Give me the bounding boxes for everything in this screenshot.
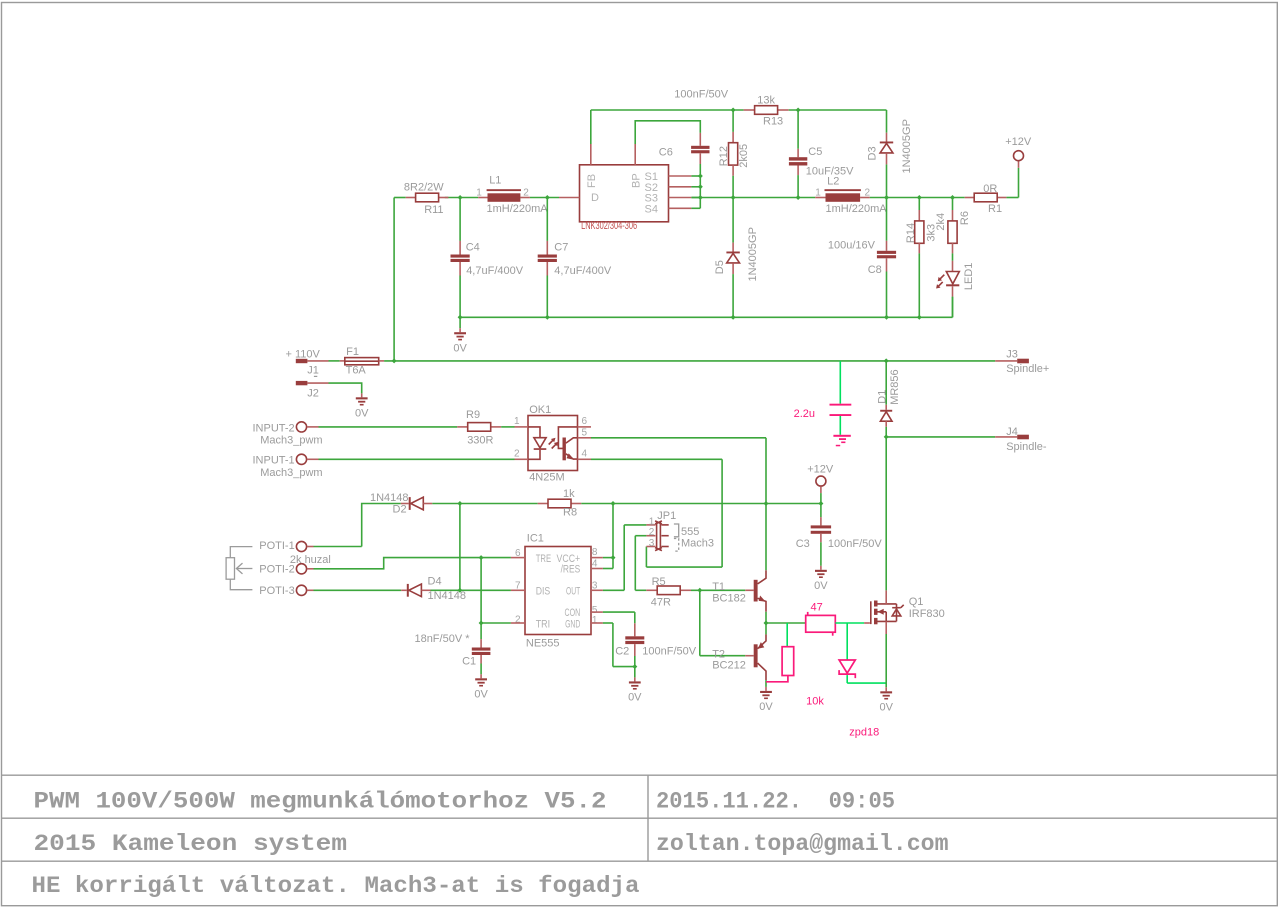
svg-text:100nF/50V: 100nF/50V: [674, 89, 728, 101]
junction D2 net vertical: [457, 501, 462, 506]
svg-text:47R: 47R: [651, 596, 671, 608]
IC1 NE555 box: [515, 532, 598, 649]
wire main HV rail y197: [394, 197, 1018, 199]
svg-text:2015.11.22. 09:05: 2015.11.22. 09:05: [656, 788, 895, 815]
transistor T1 BC182: [712, 570, 766, 612]
junction S2: [698, 184, 703, 189]
svg-text:L1: L1: [489, 175, 501, 187]
svg-text:1: 1: [649, 517, 655, 528]
wire R8 to +12V junctions: [581, 503, 821, 505]
pin GND: [591, 622, 613, 624]
junction rail gnd: [458, 315, 463, 320]
svg-text:C6: C6: [659, 147, 673, 159]
svg-text:R9: R9: [466, 409, 480, 421]
svg-text:J2: J2: [307, 388, 319, 400]
svg-text:zpd18: zpd18: [849, 726, 879, 738]
junction T1/T2 emitters: [764, 621, 769, 626]
wire J1 to fuse: [329, 360, 340, 362]
svg-text:3: 3: [649, 538, 655, 549]
pin /RES: [591, 568, 603, 570]
svg-text:R5: R5: [652, 576, 666, 588]
resistor R14: [905, 198, 938, 318]
junction R14 top: [917, 195, 922, 200]
svg-text:100u/16V: 100u/16V: [828, 240, 876, 252]
connector INPUT-2: [253, 422, 323, 447]
svg-text:GND: GND: [565, 618, 580, 630]
title block top line: [2, 774, 1278, 776]
connector J3: [995, 349, 1049, 376]
wire vertical DIS net: [459, 504, 461, 591]
svg-text:Mach3_pwm: Mach3_pwm: [260, 434, 322, 446]
wire OK1 pin4 to JP1 pin3: [591, 459, 722, 567]
wire base junction to T2: [700, 590, 746, 655]
wire JP1 pin2 to R5: [635, 536, 646, 591]
pin DIS: [511, 589, 525, 591]
diode D2: [362, 492, 433, 547]
capacitor C7: [538, 198, 612, 318]
svg-text:D4: D4: [428, 576, 442, 588]
svg-text:C7: C7: [554, 242, 568, 254]
svg-text:100nF/50V: 100nF/50V: [642, 646, 696, 658]
svg-text:POTI-3: POTI-3: [259, 585, 294, 597]
svg-text:J1: J1: [307, 365, 319, 377]
svg-text:MR856: MR856: [889, 369, 901, 404]
junction C5 bottom: [796, 195, 801, 200]
svg-text:4,7uF/400V: 4,7uF/400V: [554, 265, 612, 277]
svg-text:Spindle-: Spindle-: [1006, 441, 1047, 453]
wire TRI to IC1: [481, 622, 511, 624]
svg-text:D: D: [591, 192, 599, 204]
bracket Mach3 option: [674, 538, 714, 551]
junction rail C8: [884, 315, 889, 320]
svg-text:0R: 0R: [983, 183, 997, 195]
pin D of U1: [559, 197, 580, 199]
diode D1: [877, 361, 902, 437]
wire CON to C2: [603, 612, 635, 623]
junction rail D5: [731, 315, 736, 320]
svg-text:R13: R13: [763, 115, 783, 127]
svg-text:zoltan.topa@gmail.com: zoltan.topa@gmail.com: [656, 831, 949, 858]
pin TRE: [511, 557, 525, 559]
svg-text:2015 Kameleon system: 2015 Kameleon system: [34, 831, 347, 858]
transistor T2 BC212: [712, 634, 766, 680]
svg-text:C2: C2: [615, 646, 629, 658]
svg-text:R11: R11: [424, 204, 443, 216]
svg-text:D1: D1: [877, 390, 889, 404]
junction S1: [698, 174, 703, 179]
ground 0V T2: [759, 687, 773, 713]
svg-text:C3: C3: [796, 538, 810, 550]
svg-text:D3: D3: [867, 146, 879, 160]
svg-text:POTI-1: POTI-1: [259, 540, 294, 552]
svg-text:0V: 0V: [814, 580, 828, 592]
svg-text:T6A: T6A: [346, 365, 367, 377]
connector INPUT-1: [253, 454, 323, 479]
resistor 10k (sketch): [766, 647, 824, 708]
resistor R11: [404, 182, 449, 216]
connector J2: [296, 381, 329, 400]
label +110V: [286, 349, 321, 361]
svg-text:2: 2: [523, 188, 529, 199]
title block middle line: [2, 817, 1278, 819]
ground rail wire: [460, 297, 952, 318]
svg-text:4,7uF/400V: 4,7uF/400V: [466, 265, 524, 277]
svg-text:1N4005GP: 1N4005GP: [747, 227, 759, 281]
inductor L2: [815, 176, 887, 215]
svg-text:2k huzal: 2k huzal: [290, 554, 331, 566]
svg-text:1N4005GP: 1N4005GP: [901, 119, 913, 173]
diode D5: [714, 198, 759, 318]
ground 0V C3: [814, 566, 828, 592]
optocoupler OK1: [514, 404, 591, 483]
junction C7 tap: [545, 195, 550, 200]
capacitor C2: [615, 623, 697, 666]
svg-text:T1: T1: [712, 581, 725, 593]
wire R5 to T1 base: [691, 589, 745, 591]
junction T1/T2 base: [697, 588, 702, 593]
svg-text:0V: 0V: [879, 702, 893, 714]
wire D3 branch: [886, 110, 888, 198]
svg-text:BP: BP: [630, 173, 642, 188]
svg-text:INPUT-1: INPUT-1: [253, 455, 295, 467]
junction R8/T1 collector: [764, 501, 769, 506]
svg-text:R12: R12: [718, 146, 730, 166]
svg-text:F1: F1: [346, 346, 359, 358]
svg-text:J4: J4: [1006, 426, 1018, 438]
junction rail C7: [545, 315, 550, 320]
svg-text:0V: 0V: [474, 689, 488, 701]
svg-text:C4: C4: [466, 242, 480, 254]
pin S4 of U1: [669, 207, 701, 209]
title row 2 left: company: [34, 831, 347, 858]
wire T2 emitter up: [765, 623, 767, 634]
svg-text:100nF/50V: 100nF/50V: [828, 538, 882, 550]
inductor L1: [476, 175, 548, 215]
svg-text:13k: 13k: [757, 95, 775, 107]
junction C4 tap: [458, 195, 463, 200]
junction DIS/D4: [457, 588, 462, 593]
svg-text:OK1: OK1: [529, 404, 551, 416]
transistor Q1 IRF830: [864, 596, 945, 624]
svg-text:1mH/220mA: 1mH/220mA: [826, 203, 888, 215]
connector POTI-1: [259, 540, 313, 552]
svg-text:PWM 100V/500W megmunkálómotorh: PWM 100V/500W megmunkálómotorhoz V5.2: [34, 788, 607, 815]
title block column divider: [647, 775, 649, 861]
pin S1 of U1: [669, 175, 701, 177]
svg-text:1: 1: [514, 416, 520, 427]
resistor R5: [646, 576, 691, 608]
wire GND pin to C2 bottom: [613, 623, 635, 667]
pin BP of U1: [634, 144, 636, 165]
capacitor C1: [414, 623, 490, 674]
junction S3: [698, 195, 703, 200]
wire BP to C6: [635, 121, 700, 144]
svg-text:Q1: Q1: [909, 596, 924, 608]
wire R9 to OK1: [501, 426, 514, 428]
ground 0V Q1: [879, 687, 893, 713]
wire POTI-2 to TRE: [314, 558, 511, 569]
svg-text:1: 1: [592, 615, 598, 626]
svg-text:D5: D5: [714, 260, 726, 274]
svg-text:Mach3: Mach3: [681, 538, 714, 550]
svg-text:5: 5: [582, 427, 588, 438]
wire VCC vertical: [603, 504, 613, 569]
svg-text:L2: L2: [827, 176, 839, 188]
wire left drop to fuse net: [393, 198, 395, 361]
junction R6 top: [950, 195, 955, 200]
label 2k huzal: [290, 554, 331, 566]
svg-text:FB: FB: [586, 174, 598, 188]
IC U1 LNK302/304-306 box: [580, 165, 669, 232]
pin OUT: [591, 589, 603, 591]
ground 0V C2: [628, 667, 642, 704]
junction TRE/TRI vertical: [479, 555, 484, 560]
junction R8/VCC: [611, 501, 616, 506]
svg-text:2: 2: [865, 188, 871, 199]
capacitor 2.2u (sketch): [794, 361, 852, 446]
svg-text:TRE: TRE: [536, 553, 551, 565]
title row 2 right: email: [656, 831, 949, 858]
svg-text:18nF/50V *: 18nF/50V *: [414, 633, 470, 645]
wire FB to top net: [591, 110, 744, 144]
svg-text:0V: 0V: [759, 701, 773, 713]
jumper JP1: [646, 510, 676, 551]
wire INPUT-2 to R9: [319, 426, 458, 428]
bracket 555 option: [674, 524, 699, 538]
svg-text:1N4148: 1N4148: [370, 492, 409, 504]
junction rail R14: [917, 315, 922, 320]
svg-text:R8: R8: [563, 507, 577, 519]
fuse F1: [340, 346, 384, 377]
resistor R6: [935, 198, 971, 254]
svg-text:4: 4: [582, 449, 588, 460]
wire D2 to R8: [432, 503, 537, 505]
resistor R12: [718, 110, 750, 198]
svg-text:LNK302/304-306: LNK302/304-306: [581, 220, 637, 232]
svg-text:47: 47: [811, 601, 823, 613]
svg-text:C8: C8: [868, 264, 882, 276]
LED LED1: [936, 253, 975, 317]
wire T1 emitter: [765, 612, 767, 623]
junction R12 top: [731, 108, 736, 113]
svg-text:0V: 0V: [355, 408, 369, 420]
svg-text:DIS: DIS: [536, 586, 551, 598]
supply +12V top: [1005, 136, 1032, 198]
svg-text:/RES: /RES: [561, 564, 581, 576]
wire TRE-TRI vertical: [480, 558, 482, 623]
svg-text:S4: S4: [645, 204, 658, 216]
junction +12V/C3: [818, 501, 823, 506]
svg-text:2.2u: 2.2u: [794, 408, 815, 420]
resistor 47 (sketch): [806, 601, 836, 635]
svg-text:J3: J3: [1006, 349, 1018, 361]
diode D4: [314, 576, 511, 603]
junction D3/C8: [884, 195, 889, 200]
svg-text:2k4: 2k4: [935, 213, 947, 231]
connector J4: [995, 426, 1047, 453]
svg-text:2: 2: [514, 449, 520, 460]
svg-text:IC1: IC1: [527, 532, 544, 544]
wire Q1 drain: [885, 437, 887, 604]
wire J2 to ground: [329, 383, 362, 393]
svg-text:8R2/2W: 8R2/2W: [404, 182, 444, 194]
pin FB of U1: [590, 144, 592, 165]
svg-text:6: 6: [582, 416, 588, 427]
svg-text:R6: R6: [959, 211, 971, 225]
svg-text:C1: C1: [462, 656, 476, 668]
wire 47 to gate: [835, 622, 864, 624]
resistor R9: [457, 409, 501, 447]
capacitor C5: [789, 110, 854, 198]
title block lower line: [2, 860, 1278, 862]
svg-text:CON: CON: [565, 607, 581, 619]
svg-text:330R: 330R: [467, 434, 493, 446]
svg-text:4N25M: 4N25M: [529, 471, 564, 483]
connector POTI-3: [259, 585, 313, 597]
svg-text:D2: D2: [393, 504, 407, 516]
pin VCC+: [591, 557, 613, 559]
label 100nF/50V for C6: [674, 89, 728, 101]
svg-text:R1: R1: [988, 203, 1002, 215]
wire T2 collector to gnd: [765, 680, 767, 687]
svg-text:Spindle+: Spindle+: [1006, 363, 1049, 375]
junction TRI/C1: [479, 621, 484, 626]
wire OUT to JP1 pin1: [603, 525, 647, 590]
svg-text:+12V: +12V: [1005, 136, 1032, 148]
pin CON: [591, 611, 603, 613]
svg-text:+12V: +12V: [807, 463, 834, 475]
wire spindle- net: [886, 436, 995, 438]
svg-text:Mach3_pwm: Mach3_pwm: [260, 467, 322, 479]
connector POTI-2: [259, 564, 313, 576]
resistor R1: [965, 183, 1007, 215]
svg-text:HE korrigált változat. Mach3-a: HE korrigált változat. Mach3-at is fogad…: [32, 873, 640, 900]
junction fuse net: [392, 358, 397, 363]
wire spindle+ net y360: [384, 360, 995, 362]
svg-text:8: 8: [592, 547, 598, 558]
pin S3 of U1: [669, 197, 701, 199]
svg-text:1: 1: [815, 188, 821, 199]
capacitor C8: [828, 198, 896, 318]
capacitor C3: [796, 504, 883, 566]
capacitor C4: [451, 198, 524, 318]
junction spindle+ D1: [884, 358, 889, 363]
wire POTI-1 to D2 net: [314, 546, 362, 548]
wire T1 collector: [765, 504, 767, 571]
wire OK1 pin5 to +12V net: [591, 438, 766, 504]
potentiometer symbol (external): [226, 547, 252, 590]
zener zpd18 (sketch): [839, 623, 886, 738]
svg-text:1k: 1k: [563, 488, 575, 500]
svg-text:1: 1: [476, 188, 482, 199]
svg-text:0V: 0V: [453, 343, 467, 355]
diode D3: [867, 119, 913, 173]
ground 0V C1: [474, 674, 488, 700]
svg-text:POTI-2: POTI-2: [259, 564, 294, 576]
svg-text:1mH/220mA: 1mH/220mA: [487, 203, 549, 215]
svg-text:INPUT-2: INPUT-2: [253, 422, 295, 434]
junction C2/GND: [632, 664, 637, 669]
junction R12 bottom: [731, 195, 736, 200]
svg-text:IRF830: IRF830: [909, 608, 945, 620]
svg-text:LED1: LED1: [963, 263, 975, 291]
title row 1 right: date: [656, 788, 895, 815]
svg-text:BC212: BC212: [712, 659, 746, 671]
junction VCC pin8: [611, 555, 616, 560]
title row 1 left: project name: [34, 788, 607, 815]
wire INPUT-1 to OK1: [319, 458, 515, 460]
wire gate drive: [766, 622, 806, 624]
resistor R13: [744, 95, 887, 128]
svg-text:BC182: BC182: [712, 592, 746, 604]
connector J1: [296, 359, 329, 377]
title row 3: note: [32, 873, 640, 900]
ground 0V J2: [355, 393, 369, 419]
svg-text:10k: 10k: [806, 696, 824, 708]
svg-text:0V: 0V: [628, 692, 642, 704]
capacitor C6: [659, 133, 710, 208]
svg-text:JP1: JP1: [657, 510, 676, 522]
junction C5 top: [796, 108, 801, 113]
svg-text:2k05: 2k05: [738, 144, 750, 168]
svg-text:TRI: TRI: [536, 618, 550, 630]
svg-text:C5: C5: [808, 146, 822, 158]
svg-text:2: 2: [649, 527, 655, 538]
svg-text:NE555: NE555: [526, 638, 560, 650]
svg-text:R14: R14: [905, 223, 917, 243]
ground 0V rail: [453, 317, 467, 354]
wire Q1 source: [885, 621, 887, 687]
svg-text:555: 555: [681, 526, 699, 538]
svg-text:OUT: OUT: [566, 586, 580, 598]
junction spindle- node: [884, 434, 889, 439]
resistor R8: [538, 488, 582, 519]
pin TRI: [511, 622, 525, 624]
supply +12V mid: [807, 463, 834, 503]
wire down to 10k: [786, 623, 788, 647]
pin S2 of U1: [669, 186, 701, 188]
